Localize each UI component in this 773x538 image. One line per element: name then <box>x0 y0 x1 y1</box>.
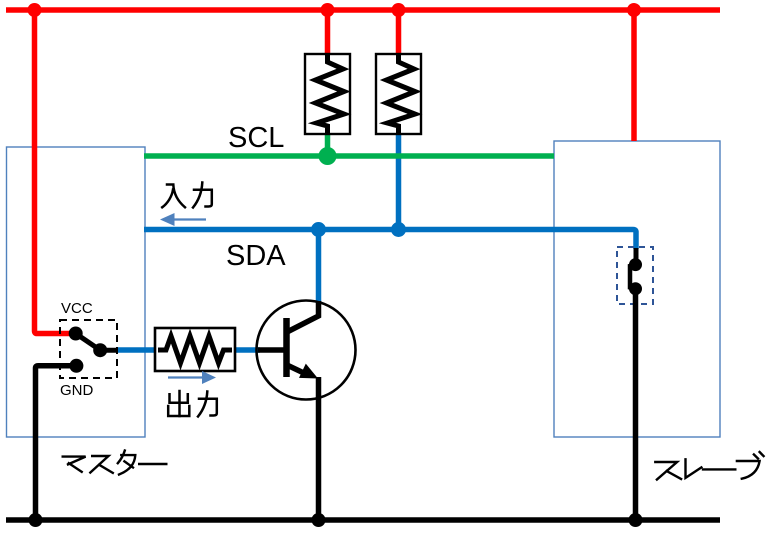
label input 入力 <box>162 183 212 208</box>
glyph レ <box>686 459 702 478</box>
switch SW1 terminal VCC dot <box>69 327 83 341</box>
base lead <box>258 347 285 353</box>
wire green stub R1 to SCL <box>325 132 331 156</box>
wire blue from R2 down to SDA <box>396 132 402 230</box>
glyph 力 <box>193 183 212 208</box>
emitter lead <box>288 366 308 376</box>
wire slave pulldown to ground <box>633 289 639 520</box>
svg-text:GND: GND <box>60 382 94 399</box>
junction dot ground emitter <box>312 513 326 527</box>
wire VCC top rail <box>6 7 720 13</box>
switch SW1 lever <box>76 334 101 351</box>
wire SDA blue line into slave <box>144 230 636 250</box>
label slave スレーブ <box>655 452 763 480</box>
junction dot SDA R2 <box>391 222 406 237</box>
switch SW1 terminal GND dot <box>69 359 83 373</box>
wire blue collector stub <box>316 230 322 304</box>
switch SW2 black stub top <box>634 248 639 266</box>
resistor R2 pullup <box>376 54 421 134</box>
junction dot top rail R2 <box>392 3 406 17</box>
junction dot top rail R1 <box>321 3 335 17</box>
junction dot top rail left <box>28 3 42 17</box>
glyph 入 <box>162 185 185 208</box>
transistor circle <box>257 301 356 400</box>
transistor Q1 <box>257 301 356 400</box>
master box <box>7 147 146 437</box>
wire SCL green line <box>144 153 554 159</box>
wire emitter to ground rail <box>316 377 322 520</box>
wire blue resistor to base <box>232 347 260 353</box>
svg-text:SCL: SCL <box>228 122 284 154</box>
glyph 力 (output) <box>198 392 217 417</box>
emitter arrowhead <box>299 364 318 379</box>
wire ground rail <box>6 517 720 523</box>
collector lead <box>288 301 319 332</box>
switch SW2 dashed box <box>617 247 653 304</box>
glyph ス (slave) <box>655 462 681 480</box>
wire red left vertical to switch <box>35 10 71 334</box>
wire red stub to R2 <box>396 10 402 58</box>
label output 出力 <box>168 391 217 417</box>
switch SW2 lever <box>630 265 636 289</box>
switch SW2 top dot <box>629 258 642 271</box>
junction dot top rail right <box>627 3 641 17</box>
junction dot ground left <box>29 513 43 527</box>
junction dot ground slave <box>629 513 643 527</box>
switch SW1 dashed box <box>60 320 117 378</box>
junction dot SDA collector <box>311 222 326 237</box>
resistor R1 pullup <box>305 54 350 134</box>
glyph マ <box>63 457 86 472</box>
junction dot SCL <box>319 147 337 165</box>
switch SW1 master <box>60 320 118 378</box>
slave box <box>554 141 720 437</box>
switch SW1 common stub <box>100 348 118 353</box>
wire red right vertical to slave <box>631 10 637 141</box>
wire blue switch to output resistor <box>117 347 163 353</box>
glyph ブ <box>737 452 764 479</box>
glyph タ <box>118 451 136 475</box>
resistor R3 output <box>155 328 235 371</box>
base bar <box>283 318 290 377</box>
glyph ス <box>90 456 113 473</box>
glyph ー (slave) <box>703 468 735 470</box>
wire red stub to R1 <box>325 10 331 58</box>
glyph ー <box>139 463 166 465</box>
glyph 出 <box>168 391 189 416</box>
switch SW1 common dot <box>93 343 107 357</box>
svg-text:SDA: SDA <box>226 240 286 272</box>
label master マスター <box>63 451 167 475</box>
arrow output right <box>168 371 216 384</box>
svg-text:VCC: VCC <box>61 300 93 317</box>
switch SW2 slave <box>617 247 653 304</box>
switch SW2 bottom dot <box>629 282 642 295</box>
arrow input left <box>160 213 206 226</box>
wire black GND to ground rail <box>36 366 77 520</box>
